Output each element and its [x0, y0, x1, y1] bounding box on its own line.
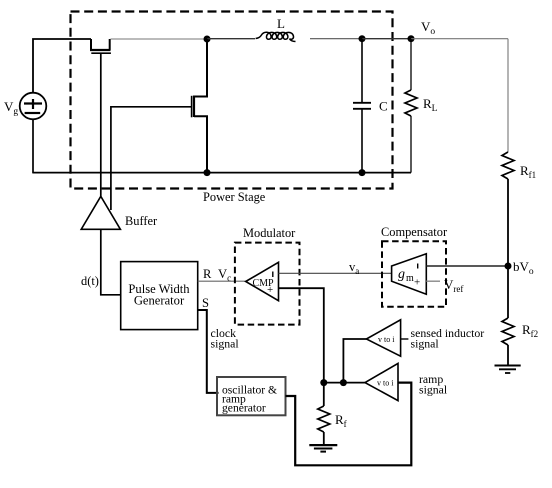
junction dot capacitor bottom — [359, 169, 366, 176]
wire: va from compensator output to CMP inverting input — [279, 272, 392, 274]
junction dot at Rf top — [320, 379, 327, 386]
wire: summing node horizontal — [324, 382, 365, 384]
svg-text:d(t): d(t) — [81, 274, 99, 288]
resistor RL — [405, 39, 417, 173]
resistor Rf2 — [502, 318, 514, 365]
node Vo junction dot — [408, 35, 415, 42]
wire: inductor to capacitor node — [310, 38, 362, 40]
wire: S output down to oscillator (clock) — [198, 310, 219, 393]
junction dot sensed branch — [340, 379, 347, 386]
svg-text:Buffer: Buffer — [125, 214, 158, 228]
wire: switch node to inductor — [207, 38, 255, 40]
svg-text:g: g — [398, 267, 405, 282]
voltage source Vg — [20, 93, 47, 120]
svg-text:signal: signal — [411, 337, 440, 351]
svg-text:S: S — [202, 296, 209, 310]
v-to-i amp U2 (sensed inductor signal) — [366, 320, 400, 356]
wire: oscillator output to ramp v-to-i input — [286, 383, 412, 466]
svg-text:signal: signal — [419, 383, 448, 397]
wire: Q1 source to switch node — [111, 38, 208, 40]
resistor Rf — [318, 383, 330, 445]
svg-text:signal: signal — [211, 337, 240, 351]
wire: Vg top up and over to Q1 drain — [33, 39, 91, 93]
resistor Rf1 — [502, 152, 514, 266]
wire: sensed v-to-i output left and down to summing node — [343, 339, 366, 383]
inductor L — [256, 32, 296, 41]
junction dot at capacitor top — [359, 35, 366, 42]
svg-text:v to i: v to i — [378, 335, 395, 344]
v-to-i amp U3 (ramp signal) — [365, 363, 398, 400]
wire: Q2 gate left and down to buffer slope — [111, 107, 192, 210]
wire: node bVo down to Rf2 — [507, 266, 509, 318]
svg-text:Power Stage: Power Stage — [203, 190, 266, 204]
transistor Q1 (high-side MOSFET) — [90, 39, 111, 53]
wire: Q1 gate down to buffer output — [100, 53, 102, 196]
modulator dashed box — [235, 243, 300, 325]
svg-text:L: L — [277, 16, 285, 31]
svg-text:+: + — [414, 277, 420, 289]
svg-text:m: m — [406, 273, 414, 284]
svg-text:R: R — [203, 267, 212, 281]
ground under Rf — [309, 445, 337, 452]
svg-text:Modulator: Modulator — [243, 226, 296, 240]
ground under Rf2 — [495, 366, 521, 374]
junction dot Q2 source at bottom rail — [204, 169, 211, 176]
svg-text:+: + — [267, 284, 273, 296]
wire: R output to CMP tip — [198, 280, 246, 282]
wire: Vg bottom to rail — [32, 119, 34, 173]
op-amp gm (transconductance amp) — [392, 254, 427, 294]
wire: buffer input from pulse width generator — [101, 229, 121, 294]
wire: capacitor node to node Vo — [362, 38, 411, 40]
svg-text:v to i: v to i — [377, 379, 394, 388]
compensator dashed box — [382, 241, 446, 306]
wire: node Vo right to feedback column — [411, 38, 508, 40]
svg-text:Generator: Generator — [134, 294, 185, 308]
wire: right column top down to Rf1 — [507, 39, 509, 152]
buffer U1 — [81, 196, 120, 229]
transistor Q2 (synchronous MOSFET) — [192, 39, 207, 173]
wire: compensator inverting input from node bVo — [426, 265, 508, 267]
wire: Vref stub to + input — [426, 280, 440, 282]
node bVo junction dot — [505, 263, 512, 270]
comparator CMP — [246, 262, 279, 300]
pulse width generator box — [121, 262, 198, 330]
svg-text:generator: generator — [222, 402, 266, 415]
wire: sensed signal input stub — [401, 338, 409, 340]
svg-text:C: C — [379, 99, 388, 114]
oscillator and ramp generator box — [217, 377, 286, 415]
capacitor C — [353, 39, 371, 173]
switch node junction dot — [204, 36, 211, 43]
bottom rail wire — [33, 172, 411, 174]
power stage dashed box — [71, 12, 393, 189]
svg-text:Compensator: Compensator — [381, 225, 448, 239]
wire: CMP + input right and down to ramp node — [279, 288, 324, 382]
